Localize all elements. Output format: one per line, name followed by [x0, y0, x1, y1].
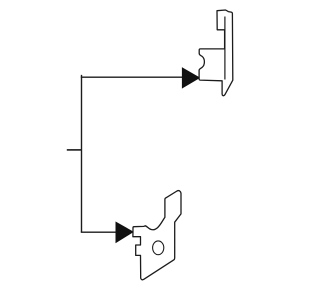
wire: upper horizontal leader line	[81, 76, 184, 78]
lower bracket hole	[153, 241, 164, 255]
lower bracket (plate) outline	[133, 191, 181, 280]
tick mark on leader	[67, 149, 82, 151]
upper bracket (clip) outline	[199, 10, 233, 96]
wire: vertical leader line	[81, 75, 83, 232]
upper bracket fold line	[224, 17, 226, 80]
arrowhead to upper bracket	[182, 68, 199, 88]
arrowhead to lower bracket	[116, 222, 133, 242]
wire: lower horizontal leader line	[81, 231, 118, 233]
